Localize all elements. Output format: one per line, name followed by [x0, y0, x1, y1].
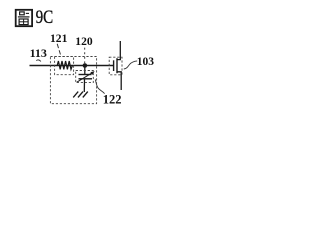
node 120 junction dot: [83, 63, 88, 68]
wire: capacitor to ground: [83, 79, 85, 92]
leader line for label 122: [95, 79, 104, 93]
ground symbol: [73, 92, 88, 98]
transistor 103 source connector: [117, 72, 121, 90]
svg-text:9C: 9C: [36, 7, 54, 28]
svg-text:122: 122: [103, 93, 122, 107]
figure title glyph 圖: [16, 10, 32, 26]
leader line for label 103: [124, 61, 137, 69]
resistor 121 dashed box: [55, 57, 74, 75]
leader line for label 120: [84, 48, 86, 64]
transistor 103 drain connector: [117, 41, 120, 60]
transistor 103 channel bar: [116, 58, 118, 73]
leader tick for label 113: [36, 60, 41, 62]
block 120 outer dashed box: [50, 57, 96, 104]
capacitor 122 variable: arrow: [77, 71, 95, 82]
wire: input 113 to transistor gate: [30, 65, 114, 67]
capacitor 122 dashed box: [76, 71, 94, 83]
transistor 103 dashed box: [109, 57, 122, 75]
leader line for label 121: [57, 44, 61, 57]
capacitor 122 variable: bottom plate: [79, 78, 93, 80]
transistor 103 gate bar: [113, 60, 115, 71]
wire: node down to capacitor: [84, 66, 86, 75]
resistor 121 zigzag: [57, 61, 72, 69]
svg-text:120: 120: [75, 35, 93, 48]
svg-text:121: 121: [50, 32, 68, 45]
svg-text:103: 103: [137, 56, 155, 68]
svg-text:113: 113: [30, 46, 47, 60]
capacitor 122 variable: top plate: [79, 74, 92, 76]
